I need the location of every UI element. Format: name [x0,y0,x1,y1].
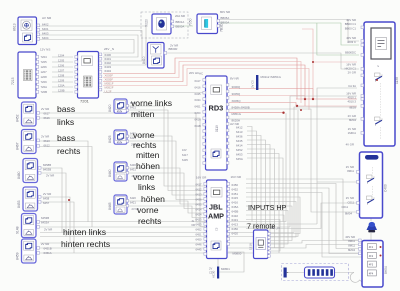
svg-text:M0801: M0801 [221,267,230,271]
svg-text:6436: 6436 [196,198,202,202]
svg-text:6436: 6436 [236,135,243,139]
speaker 8425 vorne rechts [114,130,127,144]
svg-text:2V NR: 2V NR [43,192,51,196]
svg-text:7204: 7204 [41,55,48,59]
svg-text:8458B: 8458B [43,163,51,167]
wires 7215 to 7201 [52,56,73,58]
antenna amplifier 8410 [148,43,165,69]
fuse strip [305,267,335,278]
svg-text:20A NR: 20A NR [175,14,185,18]
svg-text:6414: 6414 [236,144,243,148]
connector 8613 CD-changer plug [18,17,37,45]
svg-text:8453B: 8453B [43,168,51,172]
main interface unit top right [364,22,395,146]
red wires from RD3 tuner outputs [229,89,313,100]
head unit RD3 [206,76,228,170]
bass links wires into amp bundle [37,113,205,222]
connector 7215 changer harness [18,52,36,98]
svg-text:hinten rechts: hinten rechts [61,239,110,249]
svg-text:8M04: 8M04 [345,212,352,216]
supply wires from top connectors to right connector [219,20,359,42]
svg-text:rechts: rechts [133,140,156,150]
svg-text:720B: 720B [41,90,48,94]
svg-text:6421: 6421 [130,201,136,205]
svg-text:120A: 120A [58,84,65,88]
amp INPUTS HP bundle to connector 1516 [246,197,300,234]
amp ground stub to splice [217,259,219,267]
connector 7201 mid harness [78,52,99,99]
svg-text:1207: 1207 [58,69,65,73]
svg-text:6417: 6417 [182,153,188,157]
svg-text:16V GR: 16V GR [196,176,206,180]
svg-text:C5: C5 [209,271,213,275]
svg-text:NR: NR [192,224,196,227]
svg-text:6435: 6435 [182,158,188,162]
svg-text:bass: bass [57,133,75,143]
dashed battery lead enclosure [282,264,349,281]
svg-text:BB00DC: BB00DC [345,51,356,55]
svg-text:720A: 720A [41,85,48,89]
svg-text:2V NR: 2V NR [41,135,49,139]
svg-text:2V: 2V [209,267,212,271]
svg-text:1204: 1204 [58,54,65,58]
svg-text:120B: 120B [58,89,65,93]
splice M0112/M051G [256,75,258,90]
lamp symbol [367,226,378,231]
svg-text:16V: 16V [182,148,187,152]
svg-text:1209: 1209 [58,79,65,83]
red wire M051G with junction dot [229,112,284,114]
svg-text:M0112 /M051G: M0112 /M051G [261,75,282,79]
svg-text:8E03: 8E03 [349,106,356,110]
svg-text:6451: 6451 [195,105,201,109]
speaker 8445 hoehen vorne rechts [114,195,127,214]
svg-text:UL2F: UL2F [105,90,112,94]
svg-text:8410: 8410 [142,56,146,64]
svg-text:641A: 641A [195,117,201,121]
svg-text:7050: 7050 [189,18,193,26]
svg-text:C011: C011 [348,201,355,205]
svg-text:6451: 6451 [196,233,202,237]
svg-text:6453B: 6453B [41,216,49,220]
svg-text:6450: 6450 [232,183,239,187]
bulb stem wires [370,218,372,221]
svg-text:6451A: 6451A [44,251,52,255]
svg-text:6612: 6612 [44,144,51,148]
svg-text:AMP: AMP [208,212,224,221]
speaker 8480 wires down to bottom bundle [39,168,62,233]
connector 7030 cyan icon [197,14,218,34]
svg-text:6445: 6445 [196,248,202,252]
wire bundle from changer plug 8613 looping to 7201 [40,26,146,65]
amp ground wire M0800 [220,252,245,272]
svg-text:X005Q: X005Q [232,99,242,103]
svg-text:2V C5: 2V C5 [251,80,255,88]
svg-text:645B: 645B [232,209,239,213]
bass rechts wires down to bottom bundle [37,141,88,222]
svg-text:6423: 6423 [196,218,202,222]
svg-text:6417: 6417 [196,183,202,187]
svg-text:0119: 0119 [215,125,219,132]
speaker 8480 [23,159,38,183]
svg-text:6420: 6420 [130,196,136,200]
amp wires to C400 [246,223,317,225]
svg-text:rechts: rechts [138,216,161,226]
svg-text:4F2: 4F2 [369,255,374,258]
svg-text:X020: X020 [145,19,149,27]
green stub from X020 [173,25,193,27]
amp right wires to fuse box 8H54 [246,179,360,240]
dashed enclosure with CD changer X020 [141,12,188,38]
svg-text:1205: 1205 [58,59,65,63]
svg-text:4010.3: 4010.3 [347,100,356,104]
svg-text:mitten: mitten [136,150,160,160]
svg-text:8M11: 8M11 [348,244,355,248]
svg-text:vorne: vorne [133,130,155,140]
battery lead wires with loop into 8H54 [288,272,305,274]
speaker 9148 hinten links [22,214,37,238]
svg-text:8480: 8480 [17,171,21,179]
svg-text:7205: 7205 [41,60,48,64]
interface pins [361,26,364,29]
svg-text:6457: 6457 [43,201,50,205]
svg-text:26V _N: 26V _N [104,47,114,51]
svg-text:hinten links: hinten links [63,227,106,237]
svg-text:RD3: RD3 [209,104,224,113]
svg-text:6416: 6416 [232,201,239,205]
svg-text:INPUTS HP: INPUTS HP [248,203,287,212]
svg-text:7 remote: 7 remote [247,222,275,231]
svg-text:8459: 8459 [16,252,20,260]
svg-text:6435: 6435 [196,203,202,207]
svg-text:vorne: vorne [133,172,155,182]
red junction dots [312,98,314,100]
svg-text:6450: 6450 [232,227,239,231]
svg-text:3005Q: 3005Q [232,92,241,96]
svg-text:8425: 8425 [108,135,112,143]
svg-text:80V NR: 80V NR [220,10,230,14]
svg-text:M0800: M0800 [233,252,242,256]
svg-text:4003 C: 4003 C [347,40,356,44]
svg-text:2V NR: 2V NR [46,174,54,178]
svg-text:7201: 7201 [80,99,90,104]
svg-text:6414: 6414 [196,208,202,212]
amplifier JBL AMP [207,180,228,259]
bottom bundle horizontals [40,113,286,221]
svg-text:6452: 6452 [236,148,243,152]
svg-text:6453: 6453 [196,223,202,227]
svg-text:6402: 6402 [42,23,49,27]
svg-text:1207: 1207 [41,70,48,74]
speaker 8452 bass links [22,102,37,126]
svg-text:M051G: M051G [232,112,242,116]
svg-text:6453A: 6453A [41,221,49,225]
svg-text:20V HC: 20V HC [189,71,199,75]
svg-text:links: links [138,182,155,192]
svg-text:8M04: 8M04 [348,248,355,252]
svg-text:7B3D: 7B3D [220,23,224,32]
svg-text:2V NR: 2V NR [41,107,49,111]
svg-text:BB01A: BB01A [176,20,185,24]
svg-text:6412: 6412 [196,188,202,192]
svg-text:BB00 C1: BB00 C1 [345,27,357,31]
svg-text:6413: 6413 [196,193,202,197]
svg-text:6453: 6453 [236,153,243,157]
svg-text:vorne: vorne [137,205,159,215]
svg-text:1208: 1208 [58,74,65,78]
svg-text:2V GR: 2V GR [348,71,356,75]
remote connector 1516 [254,230,269,259]
svg-text:645A: 645A [232,205,239,209]
svg-text:6404: 6404 [42,36,49,40]
svg-text:6413: 6413 [232,223,239,227]
svg-text:8613: 8613 [13,23,17,31]
svg-text:6434: 6434 [195,98,201,102]
svg-text:4F4: 4F4 [369,272,374,275]
svg-text:8M11: 8M11 [347,169,354,173]
svg-text:645A: 645A [236,157,243,161]
svg-text:bass: bass [57,104,75,114]
battery terminal lug [284,268,287,278]
svg-text:1516: 1516 [249,243,253,250]
svg-text:6435: 6435 [195,92,201,96]
svg-text:6450: 6450 [195,111,201,115]
svg-text:C400: C400 [384,184,388,192]
svg-text:HC: HC [199,72,203,76]
svg-text:6401: 6401 [42,27,49,31]
svg-text:3000Q: 3000Q [232,85,241,89]
svg-text:6617: 6617 [44,112,51,116]
svg-text:höhen: höhen [136,161,160,171]
svg-text:7215: 7215 [11,77,15,85]
svg-text:6416: 6416 [195,85,201,89]
gray wire antenna 8410 to right connector [166,53,359,69]
svg-text:2V NR: 2V NR [44,228,52,232]
svg-text:6616: 6616 [44,116,51,120]
svg-text:BB00R: BB00R [169,47,178,51]
svg-text:8452: 8452 [16,114,20,122]
svg-text:8453: 8453 [17,200,21,208]
svg-text:1206: 1206 [58,64,65,68]
svg-text:JBL: JBL [209,203,223,212]
red wires from 7201 looping over to right connector [103,58,297,99]
svg-text:6446: 6446 [196,243,202,247]
svg-text:641B: 641B [195,124,201,128]
relay contact 2 [375,117,383,126]
svg-text:6458: 6458 [43,197,50,201]
speaker 8440 hoehen vorne links [114,162,127,181]
svg-text:6451: 6451 [232,192,239,196]
svg-text:6420: 6420 [232,231,239,235]
svg-text:8440: 8440 [108,169,112,177]
svg-text:1M011: 1M011 [348,131,357,135]
svg-text:8M11: 8M11 [348,239,355,243]
speaker 8420 vorne links [114,99,127,113]
gray wire 7201 to RD3 left [103,92,203,94]
svg-text:4F3: 4F3 [369,264,374,267]
red wire top right loop [302,29,313,89]
svg-text:4V GR: 4V GR [346,143,354,147]
amp-left vertical bundle to speakers [127,106,205,186]
svg-text:8420: 8420 [108,104,112,112]
svg-text:8M04: 8M04 [349,118,356,122]
svg-text:2V NR: 2V NR [41,242,49,246]
svg-text:7209: 7209 [41,80,48,84]
svg-text:16V NR: 16V NR [231,175,242,179]
svg-text:1138: 1138 [395,77,399,84]
svg-text:8467: 8467 [16,142,20,150]
svg-text:C011: C011 [342,205,349,209]
svg-text:9148: 9148 [16,226,20,234]
svg-text:BB05A: BB05A [221,16,230,20]
svg-text:C5: C5 [215,227,219,231]
speaker 8453 [23,187,38,211]
svg-text:6450: 6450 [196,238,202,242]
connector C400 [360,152,383,218]
svg-text:vorne links: vorne links [131,98,172,108]
svg-text:6451B: 6451B [44,247,52,251]
svg-text:6452: 6452 [232,187,239,191]
svg-text:6417: 6417 [195,79,201,83]
svg-text:BB00 C1: BB00 C1 [345,22,357,26]
svg-text:6404: 6404 [105,69,112,73]
svg-text:6613: 6613 [44,139,51,143]
gray wire 8620H to right connector [229,118,357,120]
svg-text:6424: 6424 [196,213,202,217]
svg-text:mitten: mitten [131,109,155,119]
svg-text:höhen: höhen [141,194,165,204]
svg-text:1206: 1206 [41,65,48,69]
speaker 8453 wires down to bottom bundle [39,197,70,243]
svg-text:8H54: 8H54 [384,266,388,274]
speaker 8459 hinten rechts [22,239,37,263]
svg-text:CA 3A: CA 3A [348,84,356,88]
svg-text:6452: 6452 [196,228,202,232]
svg-text:8445: 8445 [108,202,112,210]
svg-text:links: links [57,117,74,127]
RD3 output wires turning down into bundle [247,127,252,222]
red feed wires into right connector [296,98,357,100]
gray wire 8458 long vertical to C400 [229,109,358,212]
fuse box 8H54 [362,241,383,288]
svg-text:6435: 6435 [236,139,243,143]
svg-text:2V NR: 2V NR [346,196,354,200]
svg-text:6412: 6412 [236,126,243,130]
svg-text:2V NR: 2V NR [170,44,178,48]
relay contact 1 [375,73,383,82]
C400 relay contacts [367,175,375,184]
svg-text:8458A /8458B: 8458A /8458B [232,106,250,110]
svg-text:6413: 6413 [236,130,243,134]
svg-text:AV NR: AV NR [42,16,52,20]
svg-text:6432: 6432 [232,214,239,218]
ground splice M0801 AC30 [217,267,219,279]
svg-text:rechts: rechts [57,146,80,156]
svg-text:8V NR: 8V NR [230,77,240,81]
speaker 8467 bass rechts [22,130,37,154]
svg-text:6403: 6403 [42,32,49,36]
junction dot left [68,199,70,201]
svg-text:12V NS: 12V NS [40,48,50,52]
svg-text:4F1: 4F1 [369,246,374,249]
svg-text:6431: 6431 [232,218,239,222]
svg-text:6415: 6415 [232,196,239,200]
svg-text:1208: 1208 [41,75,48,79]
svg-text:BB00A: BB00A [176,25,185,29]
